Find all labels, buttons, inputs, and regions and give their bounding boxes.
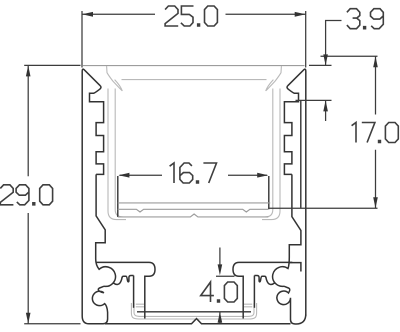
gray slot bottom L-bends — [134, 303, 254, 316]
gray liner right pair — [262, 89, 280, 220]
right wall lower inner face and clip curl head — [273, 174, 301, 286]
ext lines 3.9 — [296, 65, 332, 100]
gray cover left end hook — [107, 66, 123, 91]
right bottom corner, foot and clip curl foot — [277, 286, 306, 324]
clip curl bump and U notch — [114, 276, 134, 285]
slot floor line — [137, 311, 251, 313]
25.0 arrows — [82, 12, 93, 17]
dim 3.9 leader and arrows — [326, 21, 342, 122]
text 25.0 — [165, 6, 217, 26]
dim 17.0 line — [375, 56, 377, 208]
mounting slot ledge bar — [96, 262, 155, 318]
ext lines 17.0 — [268, 56, 377, 208]
text 29.0 — [0, 185, 52, 205]
aluminum profile left half outline — [82, 69, 306, 324]
ext line 4.0 — [216, 275, 235, 277]
screw cavity wall — [133, 276, 135, 308]
ext lines 29.0 — [24, 65, 80, 323]
right half mirrored — [233, 69, 306, 318]
right wall step below ledge — [289, 263, 301, 272]
floor middle gray line with break marks — [118, 209, 268, 212]
16.7 arrows — [118, 173, 129, 178]
gray cavity bottom strips — [136, 304, 252, 307]
left wall outer face — [82, 69, 100, 316]
dim 4.0 lines — [219, 248, 221, 324]
floor liner lines — [118, 203, 270, 217]
gray cover top line — [83, 65, 305, 67]
left bottom corner, foot and clip curl foot — [82, 286, 107, 324]
gray cover underside — [122, 79, 267, 81]
floor top gray line — [118, 202, 270, 204]
4.0 arrows — [218, 264, 223, 275]
right wall extra inner line — [300, 101, 302, 208]
17.0 arrows — [373, 56, 378, 67]
3.9 arrows — [323, 54, 328, 65]
ext lines 25.0 — [82, 11, 306, 68]
floor lower gray line with center break mark — [118, 214, 268, 217]
floor side verticals — [118, 176, 269, 217]
bottom edge with break mark — [105, 319, 291, 324]
text 4.0 — [201, 282, 238, 302]
29.0 arrows — [26, 65, 31, 76]
text 17.0 — [352, 123, 399, 143]
dim 29.0 line — [27, 65, 29, 323]
text 16.7 — [170, 163, 217, 183]
gray cover right end hook — [266, 66, 282, 91]
left wall lower inner face and clip curl head — [96, 174, 116, 286]
gray liner left pair — [108, 89, 126, 220]
dim 16.7 line — [120, 174, 268, 176]
dim 25.0 line — [82, 13, 306, 15]
text 3.9 — [347, 9, 383, 29]
